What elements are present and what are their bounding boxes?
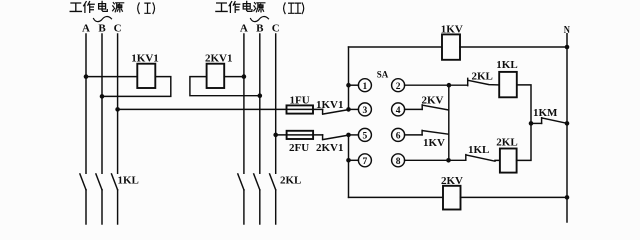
vertical node line SA outputs <box>448 85 450 160</box>
node phase B source I <box>100 94 105 99</box>
node row2 <box>447 83 452 88</box>
svg-text:2KV1: 2KV1 <box>205 52 233 64</box>
wire phase A source I upper <box>85 34 87 173</box>
label 2KV coil <box>441 175 463 187</box>
svg-text:2KV: 2KV <box>422 94 444 106</box>
relay coil 1KL <box>499 72 517 97</box>
wire phase B source I upper <box>101 34 103 173</box>
svg-text:1KV: 1KV <box>441 24 463 36</box>
label contact 2KV <box>422 94 444 106</box>
phase labels A B C source I <box>82 23 122 35</box>
label contact 2KL <box>472 70 493 82</box>
svg-text:1KL: 1KL <box>496 59 517 71</box>
svg-text:7: 7 <box>363 157 368 167</box>
contactor 2KL main contact phase C <box>270 174 276 190</box>
SA terminal 6 <box>392 128 405 141</box>
svg-text:8: 8 <box>396 157 401 167</box>
svg-text:C: C <box>114 23 122 35</box>
wire top rail right <box>460 46 567 48</box>
wire phase A source II lower <box>243 190 245 224</box>
svg-text:1KV1: 1KV1 <box>131 52 159 64</box>
node phase A source I <box>84 74 89 79</box>
node row8 <box>446 158 451 163</box>
SA terminal 1 <box>358 79 371 92</box>
label N <box>564 24 570 36</box>
contact 2KV1 normally open <box>323 135 349 140</box>
node phase B source II <box>258 93 263 98</box>
label SA <box>377 70 389 80</box>
node bus row1 <box>346 83 351 88</box>
label contact 1KV1 <box>316 99 344 111</box>
label 2FU <box>289 142 309 154</box>
label contact 1KM <box>533 107 558 119</box>
contactor 1KL main contact phase A <box>80 174 86 190</box>
node phase C source II <box>273 133 278 138</box>
wire top rail left <box>349 46 443 48</box>
contactor 1KL main contact phase C <box>112 174 118 190</box>
svg-text:A: A <box>240 23 248 35</box>
svg-text:1KV: 1KV <box>423 137 445 149</box>
wire bus to SA terminal 5 <box>349 134 359 136</box>
wire C source II to fuse 2FU <box>276 134 323 136</box>
wire C source I to fuse 1FU <box>118 108 323 110</box>
wire phase B source II upper <box>259 34 261 173</box>
contact 2KL normally closed <box>468 78 500 85</box>
wire 2KV1 to phase B source II <box>190 77 260 96</box>
svg-text:B: B <box>256 23 264 35</box>
SA terminal 2 <box>392 79 405 92</box>
svg-text:1KL: 1KL <box>468 144 489 156</box>
label 2KL coil <box>496 137 517 149</box>
wire to contact 1KM <box>531 122 542 124</box>
wire neutral N <box>566 34 568 222</box>
wire 2KV coil to N <box>461 196 568 198</box>
wire phase C source II lower <box>275 190 277 224</box>
svg-text:C: C <box>272 23 280 35</box>
contactor 2KL main contact phase A <box>238 174 244 190</box>
svg-text:4: 4 <box>396 106 401 116</box>
node bus row5 <box>346 133 351 138</box>
node bus row3 <box>346 107 351 112</box>
contact 1KV normally open <box>422 130 449 135</box>
label contact 1KL <box>468 144 489 156</box>
label 1KV1 <box>131 52 159 64</box>
label contact 1KV <box>423 137 445 149</box>
bus lower segment <box>348 135 350 198</box>
svg-text:1KV1: 1KV1 <box>316 99 344 111</box>
node 1KM left <box>529 121 534 126</box>
contact 1KV1 normally open <box>323 109 349 114</box>
fuse 2FU <box>287 131 314 139</box>
node phase A source II <box>242 74 247 79</box>
bus upper segment <box>348 47 350 109</box>
SA terminal 8 <box>392 154 405 167</box>
contact 1KL normally open <box>466 155 500 162</box>
relay coil 1KV1 <box>137 64 155 88</box>
wire SA terminal 6 to contact 1KV <box>405 134 423 136</box>
title 工作电源（II） <box>216 1 304 13</box>
svg-text:3: 3 <box>363 106 368 116</box>
title 工作电源（I） <box>70 1 154 13</box>
SA terminal 3 <box>358 103 371 116</box>
wire phase C source I upper <box>117 34 119 173</box>
label 1KL main contacts <box>118 174 139 186</box>
wire A to 1KV1 coil <box>86 76 137 78</box>
svg-text:2KL: 2KL <box>496 137 517 149</box>
wire phase A source I lower <box>85 190 87 224</box>
node bottom N <box>565 195 570 200</box>
wire 2KV1 to phase A source II <box>224 76 244 78</box>
wire phase B source I lower <box>101 190 103 224</box>
contact 1KM normally open <box>542 118 567 124</box>
wire bus to SA terminal 3 <box>349 108 359 110</box>
label 2KL main contacts <box>280 174 301 186</box>
wire phase B source II lower <box>259 190 261 224</box>
svg-text:B: B <box>98 23 106 35</box>
fuse 1FU <box>287 105 314 113</box>
wire 2KL coil to vertical <box>517 123 531 160</box>
node top rail N <box>565 45 570 50</box>
wire phase C source I lower <box>117 190 119 224</box>
svg-text:1KM: 1KM <box>533 107 558 119</box>
phase labels A B C source II <box>240 23 280 35</box>
svg-text:2KL: 2KL <box>472 70 493 82</box>
node 1KM right on N <box>565 121 570 126</box>
contactor 1KL main contact phase B <box>96 174 102 190</box>
wire SA terminal 8 to node <box>405 159 466 161</box>
svg-text:1FU: 1FU <box>290 95 310 107</box>
svg-text:2KV1: 2KV1 <box>316 142 344 154</box>
phase marker arc source II <box>251 17 269 22</box>
wire bus to SA terminal 1 <box>349 84 359 86</box>
wire 1KV1 to phase B source I <box>102 77 171 97</box>
wire phase C source II upper <box>275 34 277 173</box>
wire 1KL coil to vertical <box>517 85 531 124</box>
relay coil 2KL <box>500 149 517 173</box>
wire bus bottom to 2KV coil <box>349 196 444 198</box>
svg-text:2KL: 2KL <box>280 174 301 186</box>
relay coil 1KV <box>442 34 460 59</box>
svg-text:5: 5 <box>363 132 368 142</box>
wire phase A source II upper <box>243 34 245 173</box>
phase marker arc source I <box>94 17 112 22</box>
node bus row7 <box>346 158 351 163</box>
svg-text:A: A <box>82 23 90 35</box>
label 2KV1 <box>205 52 233 64</box>
contact 2KV normally open <box>422 105 449 110</box>
contactor 2KL main contact phase B <box>254 174 260 190</box>
svg-text:1KL: 1KL <box>118 174 139 186</box>
svg-text:SA: SA <box>377 70 389 80</box>
label 1KL coil <box>496 59 517 71</box>
label contact 2KV1 <box>316 142 344 154</box>
relay coil 2KV1 <box>207 64 225 88</box>
wire SA terminal 4 to contact 2KV <box>405 108 423 110</box>
svg-text:2FU: 2FU <box>289 142 309 154</box>
label 1FU <box>290 95 310 107</box>
svg-text:2KV: 2KV <box>441 175 463 187</box>
relay coil 2KV <box>443 186 461 210</box>
svg-text:2: 2 <box>396 82 401 92</box>
svg-text:1: 1 <box>363 82 368 92</box>
SA terminal 7 <box>358 154 371 167</box>
SA terminal 4 <box>392 103 405 116</box>
wire SA terminal 2 to contact 2KL <box>405 84 468 86</box>
node phase C source I <box>115 107 120 112</box>
wire bus to SA terminal 7 <box>349 159 359 161</box>
SA terminal 5 <box>358 128 371 141</box>
label 1KV <box>441 24 463 36</box>
svg-text:6: 6 <box>396 132 401 142</box>
